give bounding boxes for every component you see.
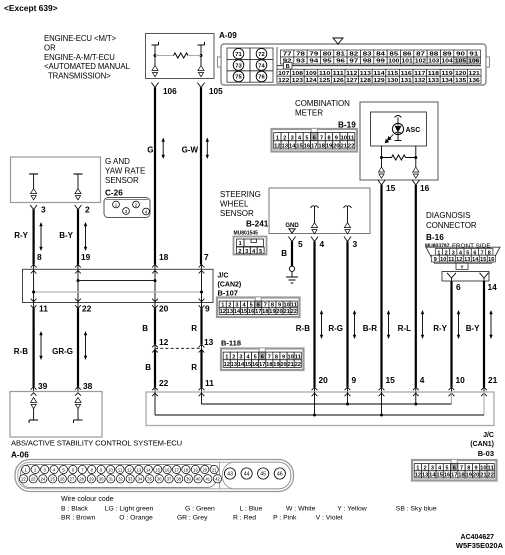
svg-text:B: B <box>142 324 148 333</box>
svg-text:104: 104 <box>442 59 453 65</box>
svg-text:5: 5 <box>259 249 262 255</box>
svg-text:36: 36 <box>157 477 162 482</box>
arrow on wire R-Y right <box>458 313 460 336</box>
svg-text:11: 11 <box>39 304 48 314</box>
svg-text:96: 96 <box>336 59 345 65</box>
svg-text:C-26: C-26 <box>105 189 123 198</box>
terminal fork 6 <box>447 273 456 278</box>
svg-text:13: 13 <box>464 257 470 263</box>
junction dot CAN1 pin 4 <box>414 403 417 406</box>
junction dot CAN1 pin 9 <box>346 403 349 406</box>
svg-text:22: 22 <box>291 309 297 315</box>
junction dot CAN2 bus2 left <box>32 291 35 294</box>
connector A-09 row 92-106 <box>281 57 294 64</box>
svg-text:6: 6 <box>72 467 75 472</box>
connector B-118 <box>221 349 304 371</box>
svg-text:6: 6 <box>456 282 461 292</box>
svg-text:46: 46 <box>277 472 283 478</box>
svg-text:21: 21 <box>212 467 217 472</box>
connector A-09 circle pins 71-76 <box>227 48 250 59</box>
svg-text:101: 101 <box>402 59 413 65</box>
svg-text:31: 31 <box>109 477 114 482</box>
svg-text:15: 15 <box>386 375 396 385</box>
svg-text:9: 9 <box>100 467 103 472</box>
arrow on wire R-L <box>422 313 424 336</box>
svg-text:71: 71 <box>235 52 242 58</box>
svg-text:129: 129 <box>373 78 384 84</box>
terminal T-bar yaw right <box>74 173 83 175</box>
pin 106 fork <box>151 83 158 88</box>
svg-text:13: 13 <box>227 309 233 315</box>
meter inner lamp box <box>371 112 427 146</box>
svg-text:15: 15 <box>245 362 251 368</box>
svg-text:16: 16 <box>252 362 258 368</box>
CAN1 riser pin 22 <box>154 392 156 415</box>
wire R vertical lower <box>200 350 202 388</box>
svg-text:15: 15 <box>155 467 160 472</box>
svg-text:A-06: A-06 <box>11 451 29 460</box>
svg-text:132: 132 <box>414 78 425 84</box>
svg-text:16: 16 <box>444 473 451 479</box>
svg-text:12: 12 <box>127 467 132 472</box>
svg-text:COMBINATION: COMBINATION <box>295 99 350 108</box>
ABS terminal left <box>31 397 37 402</box>
wire B-Y vertical <box>77 210 79 265</box>
dashed link pin12-pin13 <box>155 347 202 349</box>
marker triangle A-09 <box>333 38 343 44</box>
svg-text:16: 16 <box>248 309 254 315</box>
svg-text:R: R <box>191 324 197 333</box>
svg-text:7: 7 <box>81 467 84 472</box>
svg-text:3: 3 <box>43 467 46 472</box>
svg-text:21: 21 <box>480 473 487 479</box>
pin 15 fork <box>378 180 385 185</box>
svg-text:ABS/ACTIVE STABILITY CONTROL S: ABS/ACTIVE STABILITY CONTROL SYSTEM-ECU <box>11 439 182 448</box>
svg-text:106: 106 <box>468 59 479 65</box>
svg-text:GR-G: GR-G <box>52 347 73 356</box>
svg-text:1: 1 <box>239 241 242 247</box>
svg-text:<AUTOMATED MANUAL: <AUTOMATED MANUAL <box>44 62 131 71</box>
CAN1 riser pin 11 <box>201 392 203 404</box>
svg-text:17: 17 <box>451 473 458 479</box>
svg-text:18: 18 <box>458 473 465 479</box>
svg-text:19: 19 <box>193 467 198 472</box>
svg-text:7: 7 <box>204 252 209 262</box>
row divider with B label <box>277 65 284 67</box>
svg-text:26: 26 <box>60 477 65 482</box>
svg-text:38: 38 <box>83 381 93 391</box>
svg-text:8: 8 <box>90 467 93 472</box>
svg-text:17: 17 <box>311 144 318 150</box>
CAN1 entry marks pin 11 <box>199 387 205 390</box>
svg-text:R-B: R-B <box>14 347 28 356</box>
CAN2 exit marks pin 11 <box>31 299 37 302</box>
svg-text:20: 20 <box>280 362 286 368</box>
CAN1 riser pin 15 <box>381 392 383 415</box>
svg-text:15: 15 <box>241 309 247 315</box>
svg-text:R-Y: R-Y <box>433 324 447 333</box>
connector B-16 trapezoid <box>426 247 500 263</box>
svg-text:B-16: B-16 <box>426 233 444 242</box>
svg-text:R: R <box>191 363 197 372</box>
svg-text:4: 4 <box>53 467 56 472</box>
svg-text:40: 40 <box>196 477 201 482</box>
steering wheel sensor box <box>269 188 370 234</box>
CAN1 bus line high <box>202 403 452 405</box>
svg-text:95: 95 <box>323 59 332 65</box>
svg-text:39: 39 <box>186 477 191 482</box>
wire R-G steering vertical <box>346 242 348 388</box>
svg-text:24: 24 <box>41 477 46 482</box>
svg-text:CONNECTOR: CONNECTOR <box>426 221 477 230</box>
wire B to ground <box>291 242 293 267</box>
svg-text:13: 13 <box>281 144 288 150</box>
svg-text:102: 102 <box>415 59 426 65</box>
svg-text:10: 10 <box>456 375 466 385</box>
svg-text:8: 8 <box>37 252 42 262</box>
svg-text:17: 17 <box>259 362 265 368</box>
svg-text:9: 9 <box>352 375 357 385</box>
wire R-L vertical <box>415 185 417 387</box>
wire G-W vertical <box>200 88 202 265</box>
wire B vertical upper <box>154 303 156 309</box>
svg-text:METER: METER <box>295 109 323 118</box>
pin 3 fork <box>30 205 37 210</box>
svg-text:12: 12 <box>415 473 422 479</box>
svg-text:19: 19 <box>81 252 91 262</box>
svg-text:(CAN2): (CAN2) <box>218 282 242 289</box>
svg-text:20: 20 <box>202 467 207 472</box>
B-118 marks wire R <box>199 344 205 347</box>
wire R vertical upper <box>201 303 203 309</box>
svg-text:R-Y: R-Y <box>14 231 28 240</box>
junction dot CAN1 pin 20 <box>313 414 316 417</box>
terminal T-bar right in ECU <box>198 44 205 46</box>
svg-text:12: 12 <box>220 309 226 315</box>
svg-text:Y : Yellow: Y : Yellow <box>337 505 366 512</box>
CAN1 entry marks pin 9 <box>345 387 351 390</box>
junction connector CAN1 box <box>146 392 494 426</box>
svg-text:15: 15 <box>386 183 396 193</box>
svg-text:B-Y: B-Y <box>59 231 73 240</box>
svg-text:33: 33 <box>128 477 133 482</box>
svg-text:14: 14 <box>488 282 498 292</box>
connector C-26 <box>104 198 150 218</box>
svg-text:16: 16 <box>488 257 494 263</box>
svg-text:130: 130 <box>387 78 398 84</box>
svg-text:R : Red: R : Red <box>233 515 256 522</box>
svg-text:4: 4 <box>145 210 148 216</box>
svg-text:22: 22 <box>295 362 301 368</box>
connector A-09 row 77-91 <box>281 50 294 57</box>
svg-text:5: 5 <box>298 239 303 249</box>
svg-text:4: 4 <box>320 239 325 249</box>
svg-text:94: 94 <box>309 59 318 65</box>
svg-text:V : Violet: V : Violet <box>316 515 343 522</box>
svg-text:G : Green: G : Green <box>185 505 215 512</box>
svg-text:STEERING: STEERING <box>220 190 261 199</box>
svg-text:2: 2 <box>238 249 241 255</box>
svg-text:18: 18 <box>266 362 272 368</box>
svg-text:15: 15 <box>436 473 443 479</box>
svg-text:GND: GND <box>285 223 299 229</box>
connector A-09 body <box>221 44 486 85</box>
engine ECU box <box>146 34 215 79</box>
svg-text:105: 105 <box>209 87 223 96</box>
svg-text:3: 3 <box>41 205 46 215</box>
svg-text:14: 14 <box>234 309 240 315</box>
svg-text:20: 20 <box>319 375 329 385</box>
pin 3 fork steering <box>344 237 351 242</box>
svg-text:122: 122 <box>278 78 289 84</box>
arrow on wire B-Y right <box>490 313 492 336</box>
connector B-19 <box>272 129 358 152</box>
svg-text:74: 74 <box>258 63 265 69</box>
CAN1 entry marks pin 4 <box>413 387 419 390</box>
wire R-Y diag vertical <box>450 281 452 387</box>
junction dot meter right <box>414 156 417 159</box>
ASC indicator lamp LED <box>392 123 403 134</box>
CAN2 riser pin 8 <box>33 269 35 302</box>
meter lamp wire right <box>415 146 417 158</box>
svg-text:B-R: B-R <box>363 324 377 333</box>
svg-text:18: 18 <box>318 144 325 150</box>
svg-text:(CAN1): (CAN1) <box>470 441 494 448</box>
svg-text:20: 20 <box>473 473 480 479</box>
svg-text:11: 11 <box>118 467 123 472</box>
terminal fork 14 <box>480 273 489 278</box>
wire R-Y vertical <box>32 210 34 265</box>
steering terminal 3 <box>344 206 348 208</box>
connector A-06 body <box>15 460 294 492</box>
svg-text:14: 14 <box>238 362 244 368</box>
svg-text:14: 14 <box>146 467 151 472</box>
svg-text:11: 11 <box>448 257 454 263</box>
svg-text:135: 135 <box>455 78 466 84</box>
svg-text:136: 136 <box>469 78 480 84</box>
CAN1 riser pin 10 <box>451 392 453 404</box>
CAN2 exit marks pin 20 <box>152 299 158 302</box>
svg-text:J/C: J/C <box>483 432 494 439</box>
svg-text:127: 127 <box>346 78 357 84</box>
svg-text:ASC: ASC <box>406 127 421 134</box>
svg-text:19: 19 <box>326 144 333 150</box>
svg-text:21: 21 <box>488 375 498 385</box>
wire GR-G vertical <box>77 303 79 309</box>
arrow on wire R-G <box>354 313 356 336</box>
svg-text:R-L: R-L <box>398 324 411 333</box>
svg-text:123: 123 <box>292 78 303 84</box>
CAN2 exit marks pin 22 <box>75 299 81 302</box>
svg-text:37: 37 <box>167 477 172 482</box>
svg-text:17: 17 <box>174 467 179 472</box>
svg-text:28: 28 <box>79 477 84 482</box>
svg-text:21: 21 <box>340 144 347 150</box>
connector B-03 <box>412 460 497 481</box>
svg-text:YAW RATE: YAW RATE <box>105 167 145 176</box>
CAN1 riser pin 21 <box>483 392 485 415</box>
CAN1 entry marks pin 21 <box>481 387 487 390</box>
pin 105 fork <box>197 83 204 88</box>
diagnosis terminal box <box>442 272 489 282</box>
svg-text:AC404627: AC404627 <box>461 534 495 541</box>
wire R-B steering vertical <box>313 242 315 388</box>
svg-text:97: 97 <box>349 59 358 65</box>
wire B-Y diag vertical <box>483 281 485 387</box>
CAN2 entry marks pin 8 <box>31 265 37 268</box>
svg-text:G: G <box>147 146 153 155</box>
svg-text:124: 124 <box>305 78 316 84</box>
svg-text:133: 133 <box>428 78 439 84</box>
CAN2 riser pin 18 <box>154 269 156 302</box>
svg-text:105: 105 <box>455 59 466 65</box>
svg-text:B: B <box>281 249 287 258</box>
svg-text:21: 21 <box>284 309 290 315</box>
svg-text:16: 16 <box>304 144 311 150</box>
junction dot CAN2 bus2 right <box>200 291 203 294</box>
svg-text:O : Orange: O : Orange <box>119 515 153 522</box>
svg-text:16: 16 <box>420 183 430 193</box>
arrow on wire R-B <box>321 313 323 336</box>
wire G vertical <box>154 88 156 265</box>
ground symbol <box>289 266 294 271</box>
svg-text:23: 23 <box>31 477 36 482</box>
CAN1 riser pin 20 <box>314 392 316 415</box>
svg-text:20: 20 <box>159 304 169 314</box>
terminal symbol meter left <box>381 158 383 168</box>
svg-text:106: 106 <box>163 87 177 96</box>
svg-text:DIAGNOSIS: DIAGNOSIS <box>426 211 470 220</box>
CAN2 entry marks pin 19 <box>75 265 81 268</box>
junction dot meter left <box>380 156 383 159</box>
svg-text:12: 12 <box>456 257 462 263</box>
svg-text:134: 134 <box>441 78 452 84</box>
svg-text:22: 22 <box>487 473 494 479</box>
terminal symbol meter right <box>415 158 417 168</box>
pin 38 marks <box>75 387 81 390</box>
svg-text:22: 22 <box>21 477 26 482</box>
svg-text:19: 19 <box>273 362 279 368</box>
resistor in meter <box>382 157 392 159</box>
svg-text:B-118: B-118 <box>221 339 241 348</box>
svg-text:2: 2 <box>135 203 138 209</box>
CAN1 entry marks pin 10 <box>449 387 455 390</box>
svg-text:G AND: G AND <box>105 157 130 166</box>
junction dot CAN2 bus1 left <box>77 279 80 282</box>
svg-text:39: 39 <box>38 381 48 391</box>
svg-text:20: 20 <box>333 144 340 150</box>
svg-text:42: 42 <box>215 477 220 482</box>
svg-text:B-241: B-241 <box>246 220 269 229</box>
svg-text:P : Pink: P : Pink <box>273 515 297 522</box>
arrow on wire R-B left <box>40 334 42 357</box>
G and yaw rate sensor box <box>11 157 101 203</box>
svg-text:B : Black: B : Black <box>61 505 88 512</box>
svg-text:14: 14 <box>472 257 478 263</box>
svg-text:ENGINE-ECU <M/T>: ENGINE-ECU <M/T> <box>44 34 117 43</box>
svg-text:3: 3 <box>125 209 128 215</box>
CAN2 entry marks pin 7 <box>199 265 205 268</box>
connector B-107 <box>217 298 300 318</box>
svg-text:Wire colour code: Wire colour code <box>61 496 114 503</box>
svg-text:38: 38 <box>176 477 181 482</box>
arrow on wire GR-G <box>85 334 87 357</box>
svg-text:SENSOR: SENSOR <box>220 209 254 218</box>
svg-text:G-W: G-W <box>182 146 199 155</box>
svg-text:5: 5 <box>62 467 65 472</box>
svg-text:22: 22 <box>348 144 355 150</box>
junction dot CAN2 bus1 right <box>154 279 157 282</box>
svg-text:3: 3 <box>353 239 358 249</box>
svg-text:11: 11 <box>205 378 214 388</box>
svg-text:30: 30 <box>99 477 104 482</box>
pin 16 fork <box>412 180 419 185</box>
svg-text:2: 2 <box>85 205 90 215</box>
CAN2 riser pin 19 <box>77 269 79 302</box>
svg-text:TRANSMISSION>: TRANSMISSION> <box>48 72 111 81</box>
CAN2 exit marks pin 9 <box>199 299 205 302</box>
svg-text:J/C: J/C <box>218 273 229 280</box>
steering terminal 4 <box>311 206 315 208</box>
meter lamp wire left <box>381 146 383 158</box>
connector A-09 row 107-121 <box>277 69 291 76</box>
svg-text:18: 18 <box>262 309 268 315</box>
svg-text:44: 44 <box>244 472 250 478</box>
connector B-241 <box>234 237 267 255</box>
junction dot CAN1 pin 15 <box>380 414 383 417</box>
svg-text:W5F35E020A: W5F35E020A <box>456 541 504 550</box>
svg-text:25: 25 <box>50 477 55 482</box>
svg-text:R-G: R-G <box>328 324 343 333</box>
connector A-06 row 1-21 <box>22 465 30 473</box>
svg-text:1: 1 <box>25 467 28 472</box>
CAN1 entry marks pin 22 <box>152 387 158 390</box>
svg-text:75: 75 <box>235 75 242 81</box>
svg-text:126: 126 <box>333 78 344 84</box>
svg-text:73: 73 <box>235 63 242 69</box>
svg-text:13: 13 <box>422 473 429 479</box>
svg-text:17: 17 <box>255 309 261 315</box>
svg-text:18: 18 <box>184 467 189 472</box>
terminal symbol yaw left <box>31 189 37 194</box>
svg-text:100: 100 <box>388 59 399 65</box>
svg-text:45: 45 <box>260 472 266 478</box>
ABS ECU box <box>10 392 102 438</box>
svg-text:12: 12 <box>274 144 281 150</box>
arrow on wire B-Y <box>85 225 87 248</box>
CAN2 entry marks pin 18 <box>152 265 158 268</box>
svg-text:103: 103 <box>428 59 439 65</box>
svg-text:R-B: R-B <box>296 324 310 333</box>
svg-text:22: 22 <box>159 378 169 388</box>
svg-text:14: 14 <box>289 144 296 150</box>
svg-text:9: 9 <box>205 304 210 314</box>
svg-text:10: 10 <box>440 257 446 263</box>
svg-text:76: 76 <box>258 75 265 81</box>
svg-text:16: 16 <box>165 467 170 472</box>
svg-text:20: 20 <box>276 309 282 315</box>
svg-text:GR : Grey: GR : Grey <box>177 515 208 522</box>
svg-text:34: 34 <box>138 477 143 482</box>
svg-text:13: 13 <box>137 467 142 472</box>
terminal symbol ECU right <box>200 56 202 66</box>
terminal symbol ECU left <box>154 56 156 66</box>
CAN2 bus line 2 gray <box>34 291 202 293</box>
svg-text:4: 4 <box>420 375 425 385</box>
connector A-06 pins 43-46 <box>224 468 235 479</box>
svg-text:13: 13 <box>231 362 237 368</box>
svg-text:22: 22 <box>82 304 92 314</box>
